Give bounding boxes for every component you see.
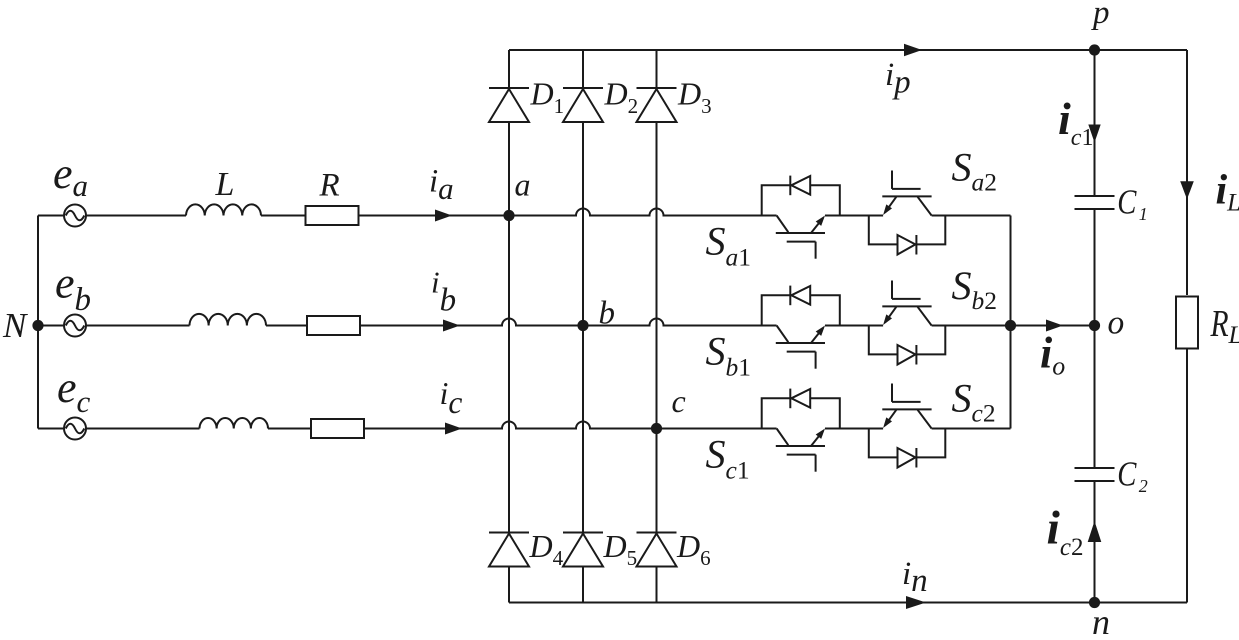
- svg-text:L: L: [1228, 322, 1239, 349]
- svg-text:D6: D6: [676, 528, 711, 570]
- label i_p: [885, 57, 911, 101]
- svg-text:D2: D2: [604, 76, 639, 119]
- svg-text:N: N: [2, 306, 28, 345]
- wire: bus to node o: [1011, 325, 1095, 327]
- resistor R (phase a): [306, 206, 359, 225]
- svg-text:ec: ec: [57, 363, 91, 419]
- svg-text:in: in: [902, 556, 928, 599]
- load resistor R_L: [1176, 297, 1198, 349]
- svg-text:C: C: [1117, 182, 1137, 221]
- wire: resistor to bridge (phase a): [359, 209, 777, 216]
- wire: inductor to resistor (phase a): [261, 215, 306, 217]
- wire: inductor to resistor (phase b): [266, 325, 307, 327]
- bypass diode loop of S_c2: [869, 429, 946, 458]
- wire: vertical column x=656.5 (D6 to bottom rail): [656, 567, 658, 603]
- wire: S_a2 to output bus: [932, 215, 1011, 217]
- label S_c2: [952, 375, 996, 427]
- svg-text:o: o: [1108, 305, 1125, 342]
- inductor L (phase b): [190, 314, 267, 326]
- svg-text:io: io: [1040, 329, 1065, 381]
- label e_c: [57, 363, 91, 419]
- AC source e_a: [38, 205, 186, 227]
- label S_a2: [952, 145, 998, 197]
- wire: vertical column x=509.0 (D4 to bottom rail): [508, 567, 510, 603]
- label S_a1: [706, 219, 752, 272]
- svg-text:Sa2: Sa2: [952, 145, 998, 197]
- label b: [599, 296, 616, 332]
- label i_b: [431, 265, 456, 319]
- antiparallel diode of S_c1: [790, 389, 810, 409]
- current arrow i_n: [906, 596, 926, 609]
- current arrow i_c: [445, 423, 462, 435]
- svg-text:b: b: [599, 296, 616, 332]
- wire: vertical column x=656.5 (D3 to D6): [656, 122, 658, 533]
- label n: [1092, 602, 1110, 640]
- AC source e_b: [38, 315, 190, 337]
- svg-text:D3: D3: [677, 76, 712, 119]
- svg-text:c: c: [672, 383, 686, 419]
- label D1: [530, 76, 565, 119]
- label c: [672, 383, 686, 419]
- antiparallel diode of S_b1: [790, 286, 810, 306]
- wire: C2 to node n: [1094, 481, 1096, 603]
- svg-text:1: 1: [1139, 204, 1148, 224]
- node n (junction dot): [1089, 597, 1100, 608]
- bypass diode loop of S_a1: [762, 185, 840, 215]
- svg-text:ic1: ic1: [1058, 93, 1093, 151]
- antiparallel diode of S_a1: [790, 176, 810, 196]
- svg-text:Sc1: Sc1: [706, 432, 750, 485]
- svg-text:ic2: ic2: [1047, 502, 1084, 562]
- label e_a: [53, 149, 88, 203]
- label i_n: [902, 556, 928, 599]
- svg-text:ic: ic: [440, 375, 463, 420]
- label S_b1: [706, 329, 752, 382]
- node a (junction dot): [503, 210, 514, 221]
- label S_c1: [706, 432, 750, 485]
- IGBT S_a1: [776, 216, 825, 259]
- wire: node o to C2: [1094, 326, 1096, 469]
- label D4: [529, 528, 564, 570]
- current arrow i_b: [443, 320, 460, 332]
- svg-text:Sa1: Sa1: [706, 219, 752, 272]
- label a: [515, 167, 531, 203]
- svg-text:Sc2: Sc2: [952, 375, 996, 427]
- wire: between S_b1 and S_b2: [825, 325, 883, 327]
- IGBT S_c1: [776, 429, 825, 472]
- label D5: [603, 528, 638, 570]
- resistor R (phase c): [311, 419, 364, 438]
- bypass diode loop of S_a2: [869, 216, 946, 245]
- wire: right rail from R_L to n rail: [1186, 349, 1188, 603]
- svg-text:p: p: [1091, 0, 1110, 31]
- node c (junction dot): [651, 423, 662, 434]
- label e_b: [55, 259, 91, 319]
- svg-text:a: a: [515, 167, 531, 203]
- wire: C1 to node o: [1094, 209, 1096, 326]
- svg-text:2: 2: [1139, 476, 1148, 496]
- node N (junction dot): [32, 320, 43, 331]
- svg-text:ia: ia: [429, 164, 454, 207]
- wire: vertical column x=583.0 (top rail to D2): [582, 50, 584, 88]
- wire: resistor to bridge (phase b): [360, 319, 777, 326]
- antiparallel diode of S_a2: [898, 235, 917, 255]
- antiparallel diode of S_b2: [898, 345, 917, 365]
- capacitor C1: [1075, 196, 1115, 209]
- svg-text:iL: iL: [1216, 168, 1239, 217]
- node p (junction dot): [1089, 44, 1100, 55]
- IGBT S_a2: [882, 171, 931, 216]
- label i_o: [1040, 329, 1065, 381]
- svg-text:ip: ip: [885, 57, 911, 101]
- diode D3: [637, 88, 677, 122]
- diode D6: [637, 533, 677, 567]
- wire: vertical column x=509.0 (top rail to D1): [508, 50, 510, 88]
- antiparallel diode of S_c2: [898, 448, 917, 468]
- wire: top rail (p rail): [509, 49, 1187, 51]
- IGBT S_b2: [882, 281, 931, 326]
- current arrow i_o: [1046, 320, 1063, 332]
- svg-text:D5: D5: [603, 528, 638, 570]
- wire: between S_a1 and S_a2: [825, 215, 883, 217]
- bypass diode loop of S_b1: [762, 295, 840, 325]
- wire: right rail from p to R_L: [1186, 50, 1188, 295]
- bypass diode loop of S_b2: [869, 326, 946, 355]
- wire: neutral vertical bus at left: [37, 216, 39, 429]
- wire: vertical column x=583.0 (D5 to bottom rail): [582, 567, 584, 603]
- svg-text:D4: D4: [529, 528, 564, 570]
- inductor L (phase a): [186, 204, 261, 215]
- label C1: [1117, 182, 1148, 224]
- label C2: [1117, 454, 1148, 496]
- diode D1: [489, 88, 529, 122]
- svg-text:D1: D1: [530, 76, 565, 119]
- AC source e_c: [38, 418, 200, 440]
- svg-text:ea: ea: [53, 149, 88, 203]
- diode D2: [563, 88, 603, 122]
- svg-text:C: C: [1117, 454, 1137, 493]
- wire: output bus vertical: [1010, 216, 1012, 429]
- label D2: [604, 76, 639, 119]
- current arrow i_a: [435, 210, 452, 222]
- wire: vertical column x=656.5 (top rail to D3): [656, 50, 658, 88]
- svg-text:R: R: [1210, 304, 1229, 345]
- label o: [1108, 305, 1125, 342]
- diode D4: [489, 533, 529, 567]
- node: bus junction on phase b line: [1005, 320, 1016, 331]
- IGBT S_c2: [882, 384, 931, 429]
- svg-text:L: L: [215, 166, 235, 203]
- label D6: [676, 528, 711, 570]
- wire: vertical column x=583.0 (D2 to D5): [582, 122, 584, 533]
- svg-text:eb: eb: [55, 259, 91, 319]
- svg-text:R: R: [319, 168, 340, 204]
- wire: resistor to bridge (phase c): [364, 422, 777, 429]
- inductor L (phase c): [199, 418, 268, 428]
- wire: inductor to resistor (phase c): [268, 428, 311, 430]
- current arrow i_p: [904, 44, 922, 56]
- svg-text:ib: ib: [431, 265, 456, 319]
- current arrow i_L: [1180, 181, 1194, 199]
- label R_L: [1210, 304, 1239, 349]
- label i_a: [429, 164, 454, 207]
- wire: bottom rail (n rail): [509, 602, 1187, 604]
- node b (junction dot): [577, 320, 588, 331]
- label D3: [677, 76, 712, 119]
- svg-text:n: n: [1092, 602, 1110, 640]
- node o (junction dot): [1089, 320, 1100, 331]
- capacitor C2: [1075, 468, 1115, 481]
- wire: p to C1: [1094, 50, 1096, 196]
- label i_c1: [1058, 93, 1093, 151]
- label p: [1091, 0, 1110, 31]
- wire: S_c2 to output bus: [932, 428, 1011, 430]
- bypass diode loop of S_c1: [762, 398, 840, 428]
- wire: S_b2 to output bus: [932, 325, 1011, 327]
- label L: [215, 166, 235, 203]
- label i_c2: [1047, 502, 1084, 562]
- diode D5: [563, 533, 603, 567]
- label S_b2: [952, 263, 998, 315]
- current arrow i_c2: [1088, 521, 1102, 542]
- svg-text:Sb2: Sb2: [952, 263, 998, 315]
- resistor R (phase b): [307, 316, 360, 335]
- wire: vertical column x=509.0 (D1 to D4): [508, 122, 510, 533]
- label i_c: [440, 375, 463, 420]
- label N: [2, 306, 28, 345]
- IGBT S_b1: [776, 326, 825, 369]
- svg-text:Sb1: Sb1: [706, 329, 752, 382]
- wire: between S_c1 and S_c2: [825, 428, 883, 430]
- label i_L: [1216, 168, 1239, 217]
- label R: [319, 168, 340, 204]
- current arrow i_c1: [1088, 125, 1100, 143]
